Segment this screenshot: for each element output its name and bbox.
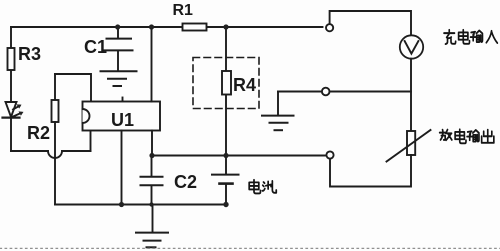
- voltmeter V1: [400, 35, 423, 58]
- svg-text:R2: R2: [27, 123, 50, 143]
- dashed box around R4: [193, 58, 259, 109]
- junction U1 pin/C2 node: [149, 153, 154, 158]
- wire U1 right bottom pin: [151, 131, 153, 156]
- ground right (charge input common): [262, 92, 294, 131]
- junction battery/bottom bus: [223, 202, 228, 207]
- terminal circle bottom (discharge): [326, 151, 333, 158]
- wire U1 top pin to top bus: [151, 27, 153, 102]
- capacitor C2: [141, 156, 163, 205]
- label 充电输入 (charge input): [444, 30, 497, 44]
- resistor R4 branch wire: [225, 27, 227, 156]
- wire bottom bus y=204.5: [55, 204, 226, 206]
- label 放电输出 (discharge output): [440, 129, 494, 143]
- wire left rail x=11: [10, 27, 12, 102]
- wire y=151 right part: [62, 150, 91, 152]
- terminal circle top (charge input): [326, 24, 333, 31]
- svg-text:R1: R1: [173, 2, 194, 19]
- svg-text:R4: R4: [233, 75, 256, 95]
- terminal circle middle: [322, 88, 330, 96]
- ground bottom center: [136, 205, 168, 248]
- capacitor C1: [104, 27, 133, 71]
- wire top bus y=27: [11, 26, 323, 28]
- svg-text:C2: C2: [174, 172, 197, 192]
- junction C1/top bus: [115, 24, 120, 29]
- wire y=91.5 left of terminal: [278, 91, 322, 93]
- junction U1 middle pin/bottom bus: [119, 202, 124, 207]
- wire middle horizontal y=155.5: [152, 155, 326, 157]
- junction battery/middle wire: [223, 153, 228, 158]
- resistor R1: [183, 24, 207, 31]
- IC U1: [83, 102, 161, 131]
- label 电池 (battery): [249, 180, 276, 194]
- wire U1 pin left bottom: [90, 131, 92, 152]
- junction C2/ground/bottom bus: [149, 202, 153, 206]
- wire rheostat bottom loop: [330, 155, 411, 187]
- wire meter to rheostat: [410, 59, 412, 131]
- resistor R4: [222, 71, 231, 95]
- wire hop over R2 branch: [48, 151, 62, 158]
- ground near C1: [101, 71, 137, 86]
- wire y=91.5 right of terminal: [330, 91, 411, 93]
- resistor R2: [52, 74, 59, 205]
- resistor R3: [8, 48, 15, 70]
- svg-text:U1: U1: [111, 110, 134, 130]
- rheostat RP: [387, 130, 431, 162]
- LED D1: [3, 102, 24, 118]
- dotted page rule bottom: [0, 247, 500, 249]
- wire LED to corner: [10, 118, 12, 151]
- svg-text:R3: R3: [18, 44, 41, 64]
- junction R4 branch/top bus: [223, 24, 228, 29]
- wire U1 middle bottom pin: [121, 131, 123, 205]
- junction U1 top pin/top bus: [149, 24, 154, 29]
- svg-text:C1: C1: [84, 37, 107, 57]
- battery BT1: [212, 156, 239, 205]
- wire terminal up and over to meter: [330, 11, 411, 35]
- wire bottom-left horizontal y=151: [11, 150, 48, 152]
- wire stub U1 top pin: [122, 98, 124, 102]
- wire loop R2 to U1 top: [55, 74, 91, 102]
